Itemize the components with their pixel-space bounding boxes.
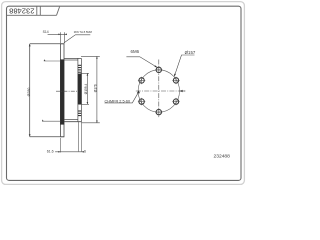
centerline left view	[56, 90, 78, 92]
flange right face	[80, 58, 82, 122]
dim B extension bottom	[81, 122, 99, 124]
OD arrow top	[29, 44, 31, 47]
bolt hole upper-right	[173, 78, 178, 83]
OD bottom extension line	[30, 136, 64, 138]
bottom dim arrows	[58, 151, 60, 153]
svg-text:61.6: 61.6	[47, 150, 54, 154]
disc ring outline	[60, 44, 64, 137]
label 6M6 leader	[126, 57, 157, 68]
bolt hole top	[156, 67, 161, 72]
thickness dim extension left	[60, 32, 62, 43]
hat bottom outer line	[64, 121, 81, 123]
svg-text:Ø158.4: Ø158.4	[84, 84, 88, 95]
dim B extension top	[81, 55, 100, 57]
dim A extension top	[81, 72, 89, 74]
svg-text:232488: 232488	[9, 7, 34, 16]
bolt hole upper-left	[139, 78, 144, 83]
dim B arrows	[96, 56, 98, 58]
OD arrow bottom	[29, 134, 31, 137]
friction surface extension bottom with finish mark	[42, 120, 60, 122]
dim A line	[86, 73, 88, 104]
hat top inner line	[64, 59, 78, 61]
bolt circle	[138, 70, 179, 112]
min thickness leader	[64, 35, 90, 43]
title tab box	[7, 6, 60, 15]
thickness arrows	[58, 34, 60, 36]
right leader tail with arrow	[180, 90, 186, 92]
dim B line	[96, 56, 98, 122]
bolt hole bottom	[156, 109, 161, 114]
dim A arrows	[87, 73, 89, 75]
horizontal centerline	[136, 90, 186, 92]
vertical centerline	[158, 60, 160, 118]
svg-text:232488: 232488	[214, 154, 231, 160]
OD top extension line	[30, 43, 64, 45]
svg-text:MIN TH 8.5MM: MIN TH 8.5MM	[74, 30, 93, 34]
svg-text:6M6: 6M6	[131, 49, 140, 54]
hat bottom inner line	[64, 119, 78, 121]
bolt hole dashes top	[78, 65, 81, 72]
label 6M6 leader arrow	[154, 65, 157, 67]
svg-text:Ø157: Ø157	[185, 50, 196, 55]
bolt hole lower-right	[173, 99, 178, 104]
bottom dimension line 61.6	[55, 151, 84, 153]
svg-text:CHMFR 2.5-60: CHMFR 2.5-60	[105, 99, 131, 103]
thickness dim line	[48, 33, 67, 35]
hat top outer line	[64, 57, 81, 59]
OD dimension line	[29, 44, 31, 137]
disc ring section fill	[60, 59, 64, 124]
label D157 leader	[174, 55, 194, 76]
svg-text:Ø176: Ø176	[94, 84, 98, 92]
svg-text:6: 6	[84, 150, 86, 154]
outer page border	[2, 2, 245, 185]
disc face extension to bottom dim	[60, 138, 62, 153]
label D157 leader arrow	[174, 74, 176, 77]
svg-text:Ø280: Ø280	[27, 88, 31, 97]
bolt hole dashes bottom	[78, 111, 81, 116]
flange solid section	[78, 74, 82, 105]
thickness dim extension right	[64, 32, 66, 43]
chamfer leader arrow at circle	[137, 90, 140, 93]
friction surface extension top with finish mark	[44, 60, 61, 62]
chamfer leader	[105, 92, 139, 103]
svg-text:S14: S14	[43, 30, 49, 34]
flange left face	[77, 58, 79, 122]
bolt hole lower-left	[139, 99, 144, 104]
dim A extension bottom	[78, 103, 89, 105]
flange extension lines to bottom dim	[77, 122, 79, 151]
drawing frame	[7, 6, 242, 180]
